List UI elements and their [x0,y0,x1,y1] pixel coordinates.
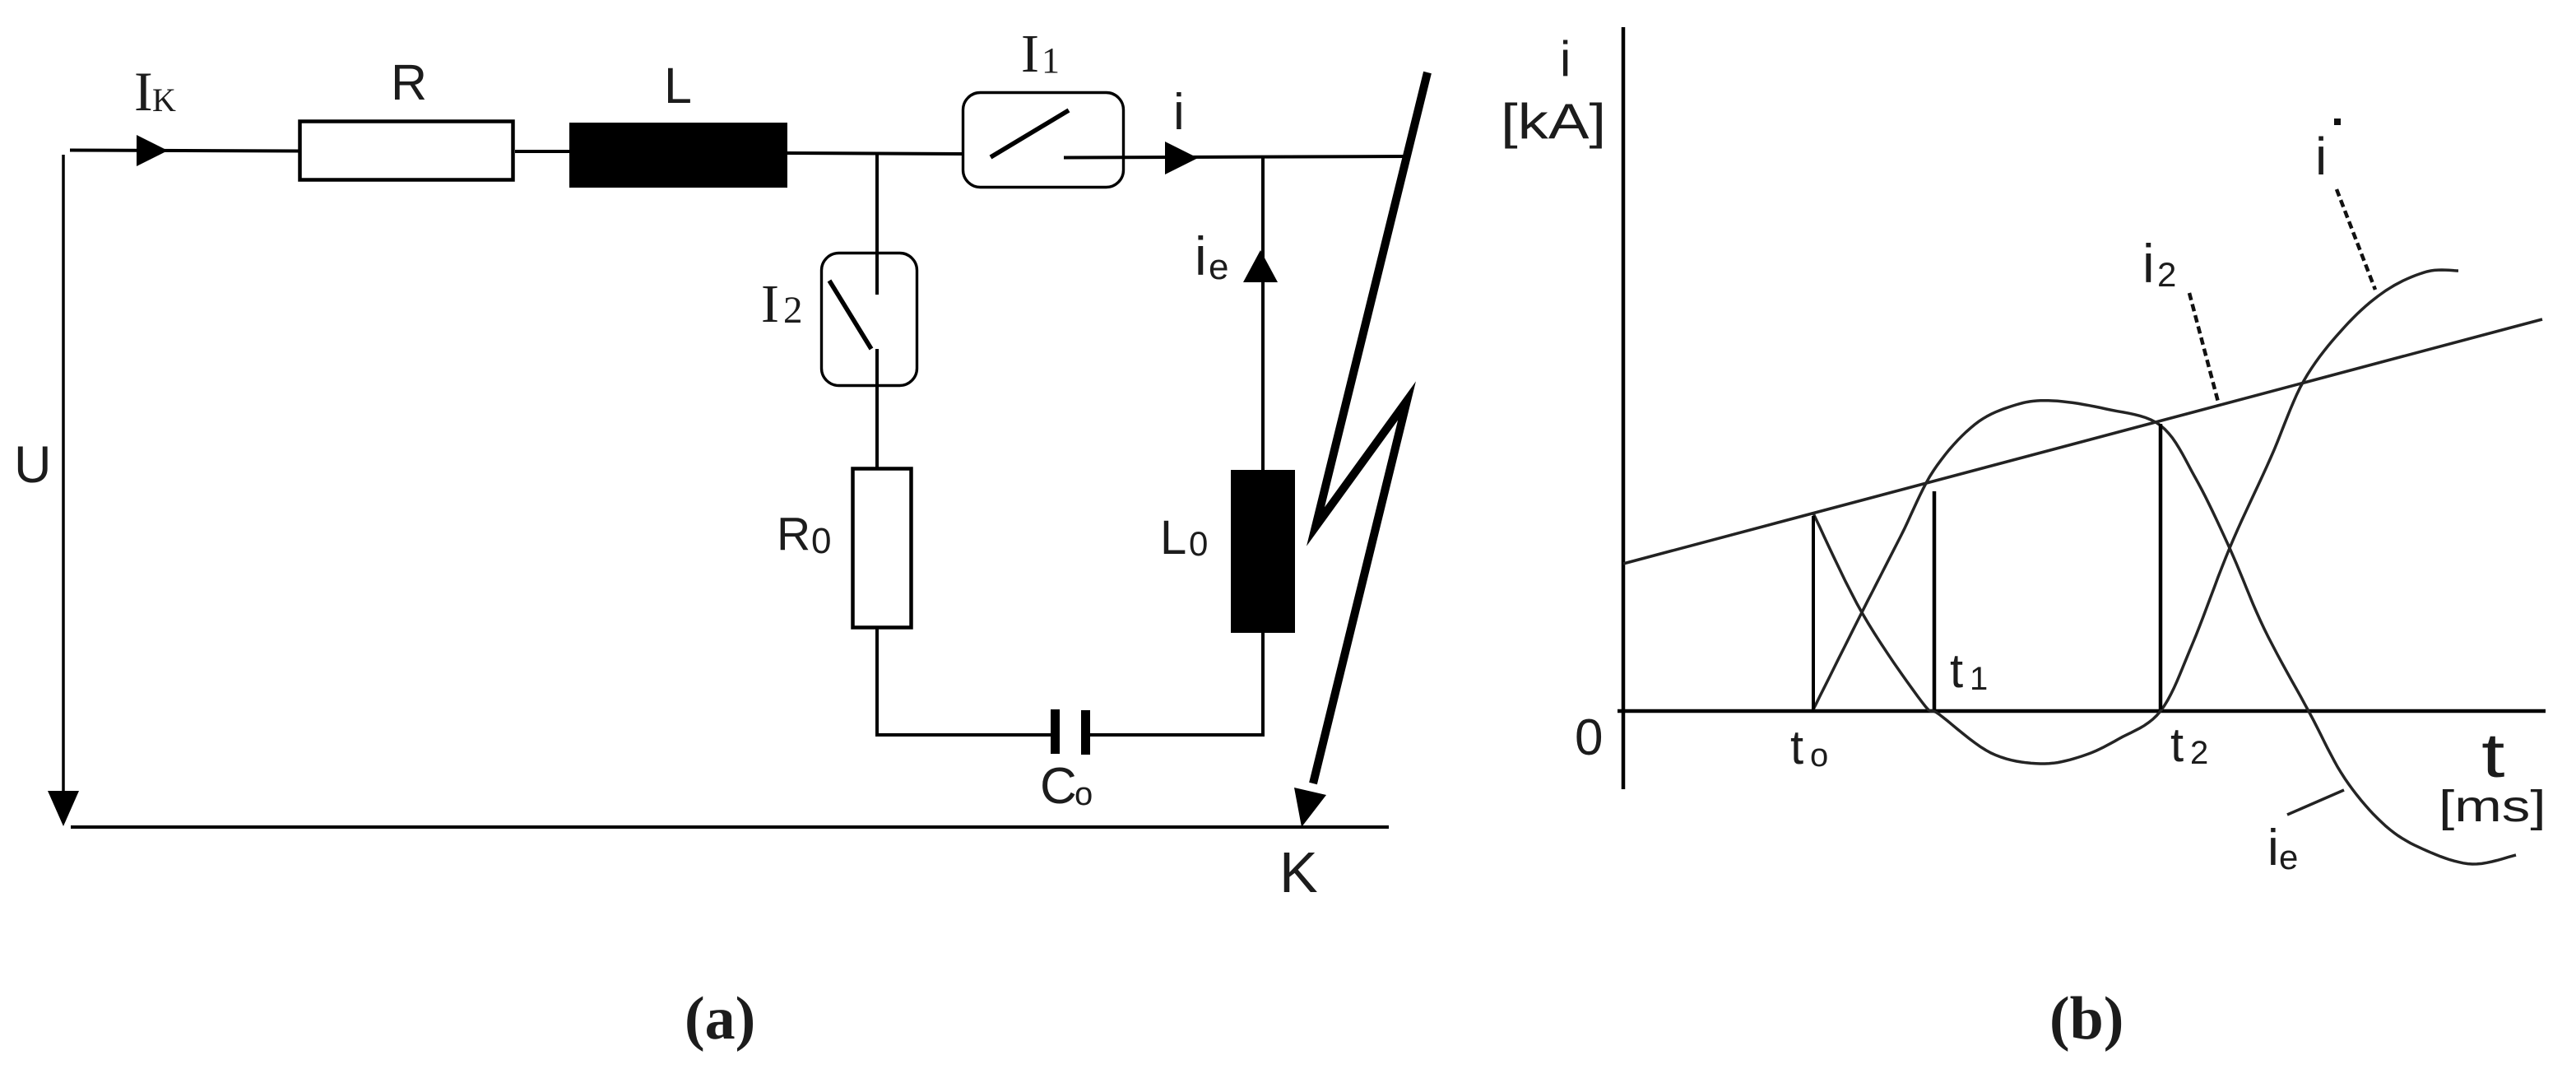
label ie [1195,225,1228,287]
svg-text:o: o [1810,737,1828,774]
wire: up to L0 [1261,632,1265,737]
svg-text:I: I [134,60,153,123]
svg-text:t: t [1790,721,1803,774]
svg-text:e: e [2279,838,2298,876]
svg-text:1: 1 [1042,40,1060,81]
breaker I2 (rounded box) [822,253,917,386]
curve i2 (straight rising line) [1623,319,2542,564]
svg-text:I: I [1021,24,1039,84]
svg-text:i: i [1195,225,1207,286]
wire: bottom left run to C0 [875,733,1051,737]
capacitor C0 left plate [1051,709,1060,754]
resistor R0 [853,469,912,628]
label R0 [777,508,831,561]
wire: ie branch up to bus [1261,156,1265,470]
breaker I1 (rounded box) [963,93,1124,188]
svg-text:t: t [2481,721,2505,791]
svg-text:I: I [761,274,779,334]
label t2 [2170,718,2208,772]
svg-text:U: U [14,436,52,494]
inductor L (solid bar) [569,123,787,188]
arrester / short-circuit lightning bolt [1313,72,1427,783]
svg-text:t: t [2170,718,2184,772]
svg-text:i: i [2315,127,2327,186]
svg-text:[kA]: [kA] [1501,95,1606,150]
label t1 [1950,644,1988,698]
label C0 [1040,758,1093,815]
label ie (curve) [2267,820,2298,876]
label t0 [1790,721,1828,774]
label i pointer (dashed) [2337,189,2375,290]
svg-text:K: K [1279,840,1318,904]
wire: junction drop to I2 [875,152,879,254]
label i2 pointer (dashed) [2189,293,2219,405]
marker t2 vertical [2159,424,2163,709]
svg-text:0: 0 [1189,524,1208,563]
marker t1 vertical [1933,491,1937,709]
inductor L0 (solid bar) [1231,470,1295,633]
resistor R [300,122,513,180]
graph y-axis [1622,27,1626,789]
svg-text:R: R [391,54,427,110]
label ie arrowhead (up) [1243,250,1278,282]
svg-text:L: L [664,58,692,114]
svg-text:1: 1 [1970,661,1988,697]
wire: main top bus left segment [70,151,299,151]
svg-text:2: 2 [2157,255,2176,294]
lightning bolt arrowhead [1294,788,1326,827]
graph x-axis [1618,709,2546,713]
label U arrowhead (down) [48,791,79,826]
wire: L to breaker I1 [787,153,964,154]
curve i (sinusoid) [1813,270,2458,764]
wire: bottom return bus [71,825,1389,829]
svg-text:(b): (b) [2049,985,2123,1053]
breaker I2 bottom stub [875,349,879,387]
svg-text:R: R [777,508,810,560]
wire: I2 to R0 [875,385,879,469]
svg-text:t: t [1950,644,1963,698]
label ie pointer [2287,790,2344,815]
label L0 [1160,511,1208,565]
svg-text:i: i [1173,84,1185,141]
svg-text:(a): (a) [685,985,755,1053]
breaker I2 top stub [875,253,879,295]
label Ik current arrow into circuit [137,135,168,166]
breaker I1 blade [991,110,1069,157]
capacitor C0 right plate [1081,710,1090,755]
label I2 [761,274,803,334]
svg-text:i: i [2267,820,2279,876]
label Ik [134,60,176,123]
svg-text:2: 2 [2190,735,2208,771]
wire: source U branch (left vertical) [62,155,65,792]
label I1 [1021,24,1060,84]
svg-text:i: i [2142,233,2155,294]
svg-text:K: K [152,81,176,119]
wire: C0 to L0 leg [1089,733,1265,737]
svg-text:0: 0 [811,521,831,561]
curve ie [1813,401,2516,864]
svg-text:L: L [1160,511,1186,565]
breaker I2 blade [829,281,871,349]
marker t0 vertical [1812,516,1815,709]
label i current arrowhead [1165,142,1198,174]
svg-text:C: C [1040,758,1077,815]
svg-text:i: i [1560,31,1571,86]
svg-text:2: 2 [783,289,803,332]
wire: R0 down to C0 [875,626,879,737]
wire: R to L [515,150,571,153]
label i2 [2142,233,2176,294]
svg-text:e: e [1209,247,1228,287]
svg-text:0: 0 [1575,709,1603,766]
wire: I1 contact out to arrester node [1064,156,1409,158]
svg-text:o: o [1074,776,1093,812]
svg-text:[ms]: [ms] [2439,782,2546,831]
